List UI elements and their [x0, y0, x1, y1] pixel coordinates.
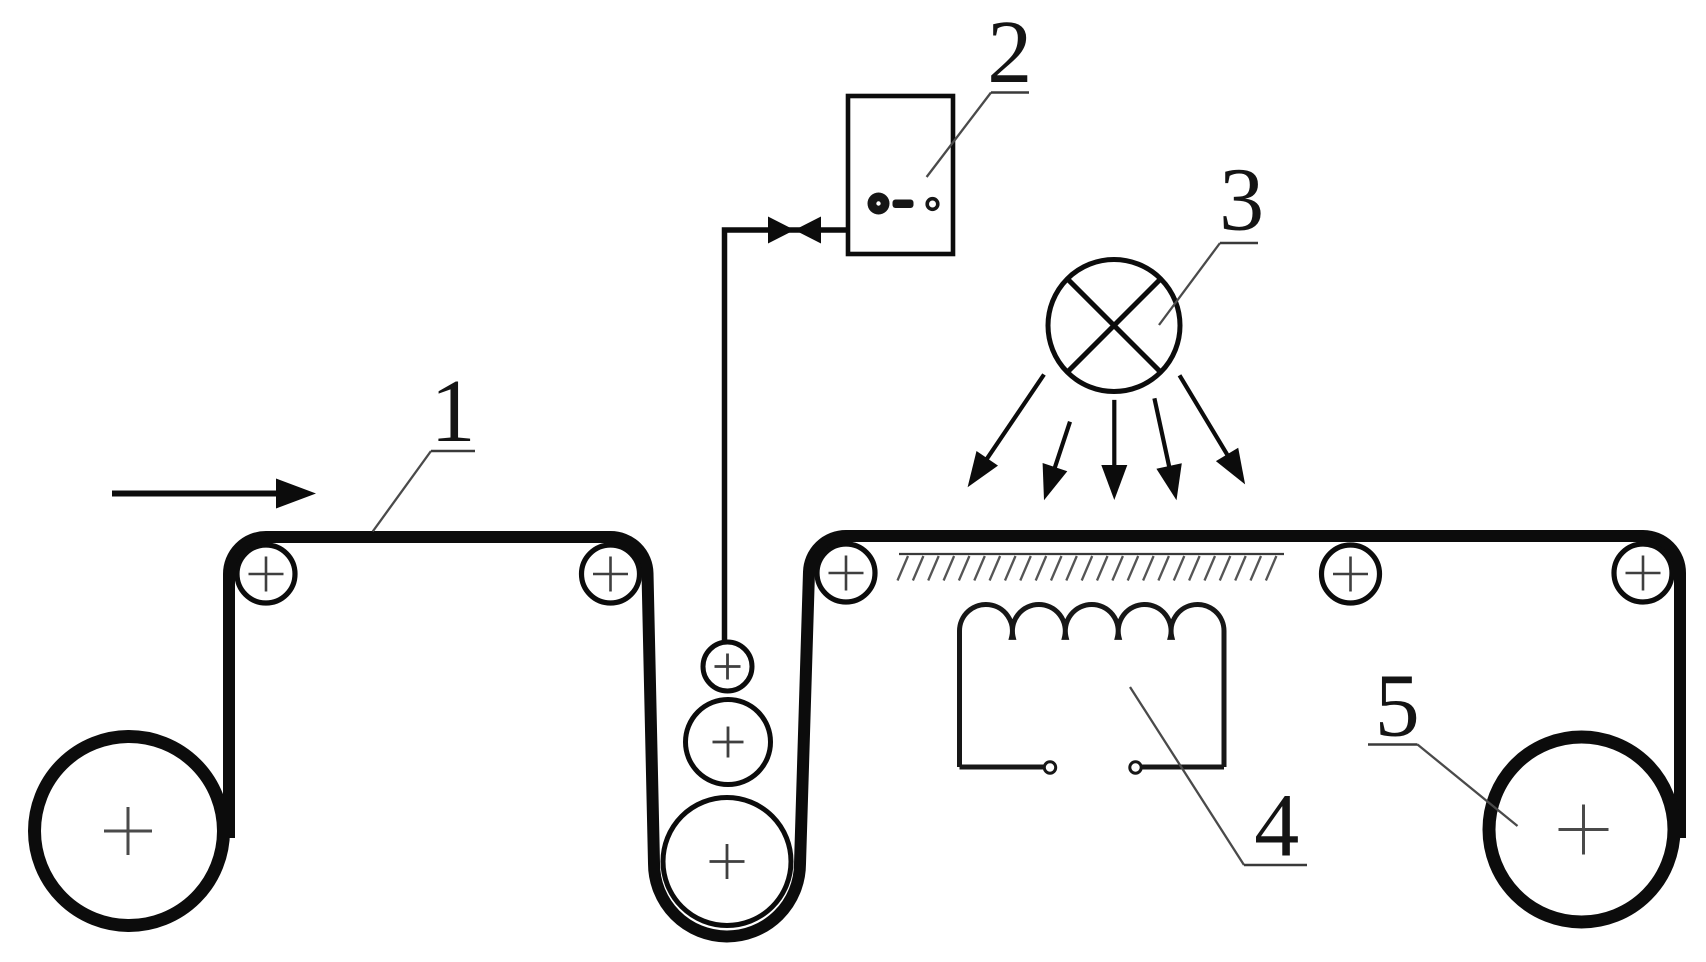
svg-text:5: 5	[1375, 657, 1420, 756]
radiation arrow 4	[1154, 398, 1181, 500]
label 3 leader	[1159, 243, 1258, 325]
roller E	[1614, 544, 1672, 602]
unwind roll (web feed)	[35, 737, 224, 926]
svg-text:1: 1	[431, 362, 476, 461]
radiation arrow 1 (leftmost)	[968, 375, 1044, 488]
roller A	[237, 545, 295, 603]
label 4 leader	[1130, 687, 1307, 865]
radiation arrow 2	[1043, 422, 1070, 501]
direction arrow	[112, 479, 316, 509]
valve on pipe	[768, 217, 821, 244]
coil terminal right	[1130, 762, 1224, 773]
roller D	[1322, 545, 1380, 603]
radiation arrow 5 (rightmost)	[1180, 375, 1246, 484]
pipe from supply box to applicator	[725, 230, 849, 641]
radiation arrow 3 (middle)	[1101, 400, 1127, 500]
svg-text:2: 2	[987, 3, 1032, 102]
applicator roller middle	[686, 700, 771, 785]
induction coil 4	[959, 604, 1224, 767]
nip roller bottom	[663, 798, 791, 926]
knob on box	[868, 193, 890, 215]
hatched surface under web	[898, 554, 1285, 581]
wire web path over rollers	[229, 536, 1680, 936]
indicator dot on box	[927, 199, 938, 210]
applicator roller small	[703, 642, 752, 691]
roller B	[582, 545, 640, 603]
svg-text:4: 4	[1254, 777, 1299, 876]
supply box 2	[848, 96, 953, 254]
svg-text:3: 3	[1219, 151, 1264, 250]
lamp / radiation source 3	[1048, 260, 1180, 392]
roller C	[817, 544, 875, 602]
label 2 leader	[927, 93, 1029, 178]
rewind roll 5	[1489, 737, 1674, 922]
switch bar on box	[893, 200, 914, 209]
label 1 leader	[373, 451, 475, 532]
coil terminal left	[960, 762, 1056, 773]
label 5 leader	[1368, 745, 1518, 827]
